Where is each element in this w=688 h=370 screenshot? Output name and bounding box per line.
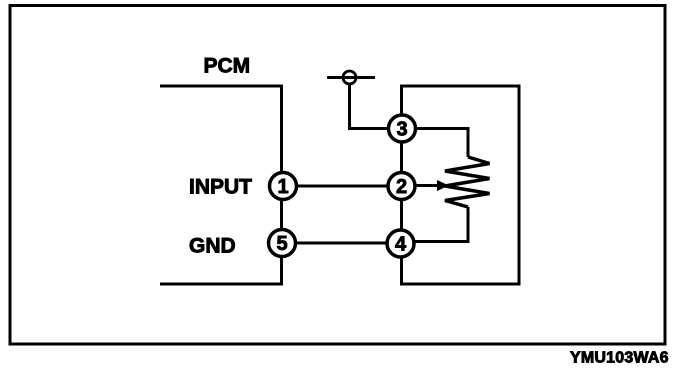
svg-text:YMU103WA6: YMU103WA6: [570, 350, 669, 367]
svg-text:GND: GND: [189, 235, 236, 258]
svg-text:INPUT: INPUT: [189, 176, 252, 199]
svg-text:2: 2: [396, 176, 407, 198]
svg-text:5: 5: [276, 233, 287, 255]
svg-text:3: 3: [396, 119, 407, 141]
svg-text:PCM: PCM: [204, 55, 251, 78]
svg-text:1: 1: [277, 176, 288, 198]
svg-text:4: 4: [395, 234, 407, 256]
